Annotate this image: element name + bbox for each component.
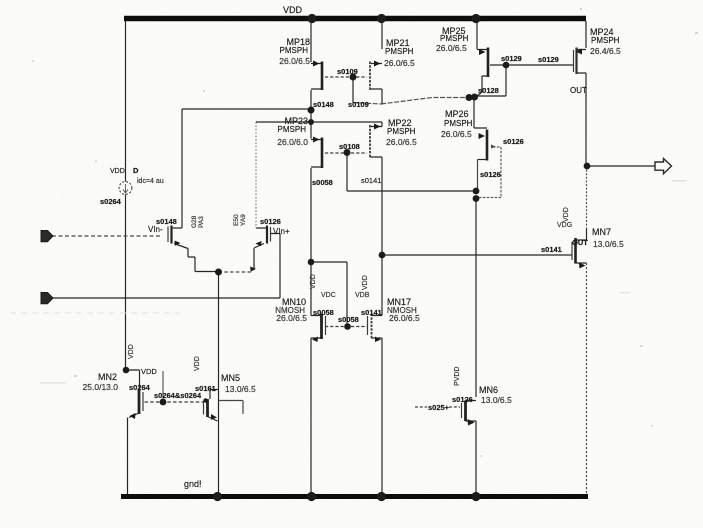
wire MP24 source from rail (585, 21, 587, 48)
wire VDD left drop to current source (125, 21, 127, 182)
wire MP26 drain to s0126 (477, 160, 479, 192)
wire s0109 riser (352, 77, 354, 103)
source arrow MN5 (211, 414, 217, 420)
source arrow VIn- device (175, 241, 181, 246)
transistor MN5 (206, 399, 209, 417)
gate arrow MP23 (313, 137, 320, 143)
node s0126 junction a (473, 188, 480, 195)
gate arrow MP26 (479, 133, 486, 139)
wire MP26 source from s0128 (474, 98, 487, 129)
transistor MN (VIn+ input device) (266, 226, 268, 244)
wire s0148 cascode sources y122 (256, 121, 382, 123)
wire s0141 to MN7 gate (382, 254, 572, 256)
transistor MN2 (138, 389, 141, 414)
node VDD rail junction at MP21 (377, 14, 386, 23)
node s0128 junction b (471, 94, 478, 101)
wire VIn- drain to s0148 (181, 109, 183, 228)
wire s0141 MP22 drain down (381, 157, 383, 255)
wire MP21 source from rail (381, 21, 383, 49)
transistor MN (VIn- input device) (167, 227, 169, 243)
node s0141 (379, 252, 386, 259)
node s0058 (308, 259, 315, 266)
input pin 2 wire VIn+ (52, 297, 280, 299)
gate wire MP18-MP21 s0109 (325, 76, 367, 78)
transistor MP23 (311, 122, 322, 167)
wire VIn+ drain riser to y122 (255, 122, 257, 228)
MP26 bulk arrow (491, 145, 496, 149)
source arrow MN10 (312, 337, 318, 343)
transistor MP21 (370, 64, 382, 90)
wire OUT column down to MN7 (586, 166, 588, 229)
node VDD rail junction at MP18 (307, 14, 316, 23)
wire MP18 drain to s0148 node (310, 90, 312, 122)
gate wire MN2-MN5 s0264&s0264 (145, 401, 204, 403)
current source I3 idc=4au (119, 182, 132, 195)
wire s0148 horizontal (182, 108, 311, 110)
node tail junction (215, 269, 222, 276)
wire s0126 column down to MN6 (475, 198, 477, 397)
node gnd rail junction at MN6 (471, 492, 480, 501)
wire s0129 riser to s0128 junction (477, 65, 507, 96)
transistor MP24 (577, 50, 587, 74)
ground rail gnd! (121, 494, 588, 499)
wire MN17 source to ground rail (381, 338, 383, 495)
wire MN6 source to ground rail (475, 421, 477, 495)
source arrow MN7 (579, 263, 586, 269)
node s0126 junction b (473, 195, 480, 202)
wire s0108 to s0126 node y191 (347, 190, 476, 192)
node s0128 junction a (466, 94, 473, 101)
wire MN10 drain column (310, 262, 312, 316)
gate arrow MP18 (313, 61, 320, 67)
gate arrow MP24 (576, 49, 583, 55)
transistor MP22 (370, 122, 382, 157)
node gnd rail junction at MN17 (377, 492, 386, 501)
wire s0264 gate riser (162, 371, 164, 402)
transistor MP26 (486, 130, 489, 161)
gate arrow MP21 (374, 61, 381, 67)
source arrow MN2 (130, 413, 136, 419)
wire MN7 source to ground rail (586, 263, 588, 495)
wire s0129 tap (490, 64, 573, 66)
wire MP25 drain to s0128 (477, 76, 483, 97)
VDD power rail (124, 16, 586, 22)
transistor MP25 (477, 50, 488, 77)
wire OUT to output pin (587, 165, 655, 167)
wire VIn- source steps to tail node (188, 249, 219, 272)
wire VIn+ gate riser (279, 234, 281, 299)
output pin (OUT) (655, 159, 672, 174)
gate stub s025+ for MN6 (415, 406, 460, 408)
node OUT (584, 163, 591, 170)
node s0129 (503, 62, 510, 69)
wire MN10 source to ground rail (310, 338, 312, 495)
wire s0264 current source to MN2 drain (126, 195, 140, 390)
scan noise specks (10, 312, 180, 314)
node gnd rail junction at tail (213, 492, 222, 501)
wire tail dashed to VIn+ source (219, 271, 253, 273)
gate arrow MP25 (479, 49, 486, 55)
wire MN17 drain column s0141 (381, 255, 383, 316)
transistor MN7 (576, 229, 587, 263)
source arrow tail VIn+ (250, 267, 256, 272)
source arrow MN6 (468, 419, 475, 426)
transistor MP18 (311, 64, 322, 90)
wire s0108 riser to y191 (346, 153, 348, 191)
MP26 bulk tie wire (477, 147, 501, 198)
node s0109 gate (350, 74, 357, 81)
gate wire MP23-MP22 s0108 (325, 152, 367, 154)
wire tail column to ground rail (218, 272, 220, 495)
node s0264 gate (160, 399, 167, 406)
transistor MN17 (372, 316, 383, 339)
input pin 1 wire VIn- (52, 235, 161, 237)
wire MP25 source from rail (476, 21, 478, 49)
source arrow VIn+ device (256, 241, 262, 246)
node s0264 at MN2 (123, 367, 130, 374)
wire MP21 drain (381, 89, 383, 104)
transistor MN6 (466, 401, 477, 422)
wire s0109 to s0128 junction (353, 98, 468, 105)
node s0148 (308, 107, 315, 114)
node VDD rail junction at MP25 (471, 14, 480, 23)
MN5 bulk wire (219, 401, 244, 415)
node s0108 gate (344, 149, 351, 156)
transistor MN10 (311, 316, 322, 339)
wire s0058 to MN gate riser (311, 262, 347, 327)
gate wire MN10-MN17 (325, 326, 367, 328)
wire MP24 drain to OUT (585, 73, 587, 166)
gate arrow MP22 (374, 124, 381, 130)
node s0148 cascode (308, 119, 314, 125)
node MN gate line (344, 323, 351, 330)
node MN5 gate end (203, 398, 207, 402)
input pin 2 (VIn+) (41, 293, 53, 304)
source arrow MN17 (375, 337, 381, 343)
node gnd rail junction at MN10 (307, 492, 316, 501)
input pin 1 (VIn-) (41, 231, 53, 242)
wire MP18 source from rail (310, 21, 312, 62)
wire s0058 MP23 drain down (310, 168, 312, 262)
